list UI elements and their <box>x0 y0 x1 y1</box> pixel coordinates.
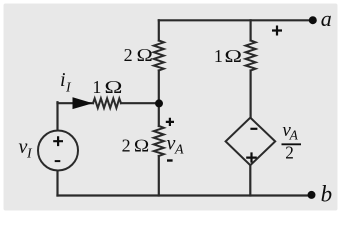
fraction bar vA/2 <box>282 143 302 145</box>
source VI circle <box>38 131 78 171</box>
svg-text:2: 2 <box>285 143 294 163</box>
wire middle column upper stub <box>158 20 160 40</box>
svg-text:Ω: Ω <box>224 46 242 66</box>
wire left horizontal branch <box>58 102 94 104</box>
dependent source diamond <box>226 118 276 166</box>
svg-text:A: A <box>289 127 299 142</box>
arrow current iI <box>73 98 91 109</box>
minus sign inside diamond <box>250 128 257 130</box>
svg-text:1: 1 <box>92 77 101 97</box>
wire right column to diamond <box>250 71 252 118</box>
svg-text:Ω: Ω <box>136 46 153 66</box>
node junction dot <box>155 99 163 107</box>
wire middle column lower to bottom rail <box>158 156 160 196</box>
wire right column upper stub <box>250 20 252 40</box>
resistor R-2ohm-top zigzag <box>154 41 164 71</box>
plus sign terminal a polarity <box>272 26 282 36</box>
wire left column lower <box>56 171 58 196</box>
plus sign vA polarity <box>166 118 174 126</box>
wire middle column node to lower resistor <box>158 103 160 126</box>
wire middle column to node <box>158 71 160 104</box>
terminal b dot <box>308 191 316 199</box>
svg-text:Ω: Ω <box>134 136 150 155</box>
wire diamond to bottom rail <box>249 165 251 195</box>
svg-text:A: A <box>174 143 184 158</box>
terminal a dot <box>309 16 317 24</box>
svg-text:1: 1 <box>214 46 223 66</box>
wire left column upper <box>56 102 58 130</box>
resistor R-1ohm-horizontal zigzag <box>93 98 121 108</box>
svg-text:b: b <box>321 182 333 207</box>
svg-text:2: 2 <box>124 45 133 65</box>
svg-text:i: i <box>60 69 66 91</box>
svg-text:2: 2 <box>122 135 131 155</box>
wire top rail <box>159 19 313 21</box>
wire bottom rail <box>58 194 312 196</box>
svg-text:a: a <box>321 6 332 31</box>
minus sign vA polarity <box>167 159 173 161</box>
plus sign inside source VI <box>53 136 63 146</box>
minus sign inside source VI <box>55 160 61 162</box>
plus sign inside diamond <box>246 152 257 162</box>
resistor R-1ohm-right zigzag <box>246 41 256 71</box>
resistor R-2ohm-lower zigzag <box>154 126 164 156</box>
wire horizontal to node <box>121 102 159 104</box>
svg-text:Ω: Ω <box>104 77 123 97</box>
